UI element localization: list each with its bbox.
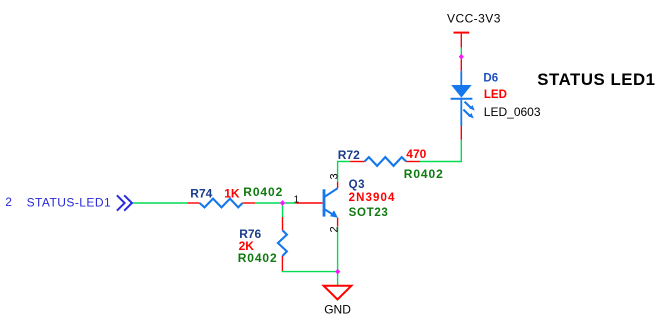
svg-text:R0402: R0402 — [238, 251, 278, 265]
svg-text:2: 2 — [328, 226, 340, 232]
svg-text:LED_0603: LED_0603 — [484, 105, 541, 119]
svg-text:2: 2 — [5, 195, 12, 209]
svg-text:3: 3 — [328, 173, 340, 179]
svg-text:2N3904: 2N3904 — [349, 192, 396, 204]
svg-text:R0402: R0402 — [404, 167, 444, 181]
svg-text:1K: 1K — [224, 186, 240, 200]
svg-text:LED: LED — [484, 89, 507, 101]
svg-text:R74: R74 — [190, 186, 212, 200]
svg-text:STATUS LED1: STATUS LED1 — [537, 70, 655, 89]
svg-text:D6: D6 — [483, 73, 498, 85]
svg-text:1: 1 — [294, 194, 300, 205]
svg-text:GND: GND — [324, 302, 351, 316]
svg-text:STATUS-LED1: STATUS-LED1 — [27, 195, 112, 209]
svg-text:VCC-3V3: VCC-3V3 — [447, 12, 501, 26]
svg-text:470: 470 — [406, 147, 426, 161]
svg-text:R0402: R0402 — [243, 185, 283, 199]
svg-text:R72: R72 — [338, 148, 360, 162]
svg-text:SOT23: SOT23 — [349, 207, 389, 219]
svg-text:Q3: Q3 — [349, 179, 366, 191]
